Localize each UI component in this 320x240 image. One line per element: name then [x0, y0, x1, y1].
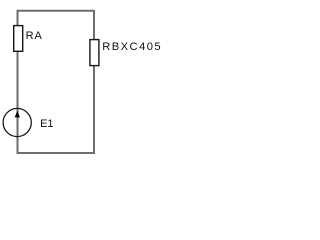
wire: bottom net horizontal segment (node B: E1 negative side to RBXC405 pin2) — [17, 152, 96, 154]
source E1 (circle body of EMF source) — [3, 108, 31, 136]
svg-text:E1: E1 — [40, 118, 53, 130]
wire: top net horizontal segment (node A: RA pin1 to RBXC405 pin1) — [17, 10, 96, 12]
wire: right branch from RBXC405 pin 2 down to bottom net — [93, 65, 95, 155]
source E1 arrow head (EMF direction, points up) — [15, 112, 19, 118]
wire: left branch from RA pin 2 down through source E1 to bottom net — [17, 51, 19, 155]
svg-text:RBXC405: RBXC405 — [102, 41, 161, 53]
resistor RBXC405 (body) — [90, 40, 99, 66]
wire: vertical stub from top net down to RBXC405 pin 1 — [93, 11, 95, 41]
wire: vertical stub from top net down to RA pin 1 — [17, 11, 19, 27]
svg-text:RA: RA — [26, 30, 43, 42]
resistor RA (body) — [14, 26, 23, 52]
